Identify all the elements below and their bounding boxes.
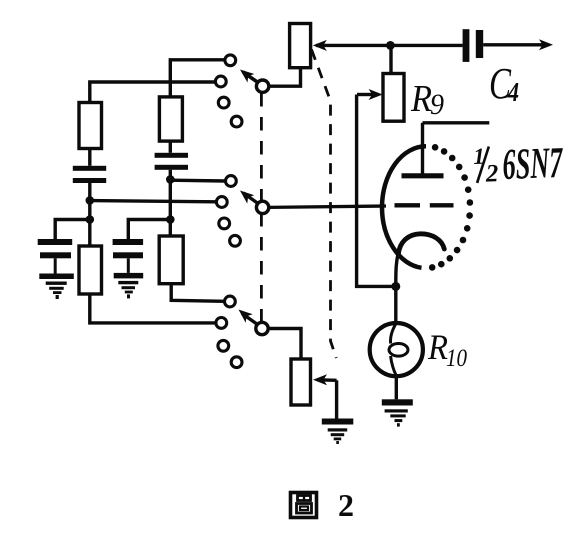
wire: R10 to ground: [395, 376, 398, 399]
wire: cathode node to R10: [394, 286, 397, 323]
svg-text:4: 4: [507, 77, 519, 107]
wire: C2 down to col2 junction: [169, 170, 172, 236]
resistor R3 (col1 lower): [79, 246, 102, 294]
caption: figure character: [291, 493, 317, 518]
ground (under C5): [114, 273, 144, 299]
wire: S1c pivot to VR2: [268, 329, 301, 360]
switch S1c contact 3: [218, 340, 229, 351]
wire: C3 to ground: [54, 258, 57, 273]
output arrow: [539, 39, 553, 50]
switch S1c contact 2: [216, 318, 227, 329]
wiper arrow of VR2: [317, 378, 337, 382]
wire: plate to B+: [423, 121, 490, 124]
switch S1c contact 4: [231, 357, 242, 368]
wire: grid to switch S1b wiper: [269, 206, 386, 207]
capacitor C4: [463, 29, 470, 62]
wire: C5 to ground: [127, 258, 130, 273]
svg-text:R: R: [410, 78, 432, 120]
wire: col1 to bypass cap C3: [55, 220, 90, 240]
switch S1c wiper arm: [242, 314, 258, 325]
switch S1a contact 3: [218, 97, 229, 108]
switch S1b contact 2: [216, 197, 227, 208]
ground (under VR2): [322, 419, 354, 445]
wire: R9 wiper down to cathode node: [357, 95, 393, 287]
switch S1c contact 1: [225, 296, 236, 307]
cathode of U1: [398, 234, 444, 255]
svg-text:R: R: [427, 327, 448, 367]
ground (under R10): [382, 399, 413, 426]
ballast resistor R10 (lamp symbol): [370, 323, 423, 376]
svg-text:6SN7: 6SN7: [502, 138, 565, 189]
capacitor C3 (grounded): [38, 239, 72, 258]
wire: R4 to S1c contact 1: [171, 284, 224, 302]
triode envelope (dotted right arc): [429, 144, 473, 271]
wire: R3 to S1c contact 2: [90, 294, 216, 323]
label 1/2 6SN7: [473, 138, 565, 190]
wire: R2 to C2: [169, 141, 172, 153]
switch S1a pivot: [256, 80, 268, 92]
node: col2 junction a: [166, 175, 175, 184]
dashed gang line of switch S1: [260, 93, 263, 321]
switch S1c pivot: [256, 322, 268, 334]
wiper arrow of VR1: [316, 44, 463, 47]
switch S1b contact 3: [219, 218, 230, 229]
resistor R4 (col2 lower): [159, 236, 183, 284]
resistor R2 (col2 upper): [159, 97, 182, 141]
switch S1a contact 4: [231, 116, 242, 127]
capacitor C1 (col1): [73, 166, 106, 183]
wire: col1 to S1b contact 2: [90, 201, 217, 202]
wire: col1 top to S1a contact 2: [90, 82, 216, 103]
potentiometer VR1 (top): [290, 24, 311, 68]
node: col1 junction b: [86, 215, 95, 224]
wire: junction to R9: [389, 45, 392, 73]
switch S1b contact 1: [226, 176, 237, 187]
node: col2 junction b: [166, 215, 175, 224]
dashed gang line VR1-VR2: [312, 50, 337, 359]
node: col1 junction a: [86, 196, 95, 205]
switch S1b wiper arm: [244, 193, 259, 204]
wire: S1a pivot to VR1: [269, 68, 301, 87]
switch S1a contact 2: [215, 76, 226, 87]
svg-text:2: 2: [338, 487, 354, 523]
svg-text:2: 2: [484, 160, 498, 187]
wire: R1 to C1: [88, 149, 91, 166]
potentiometer VR2 (bottom): [291, 359, 311, 405]
ground (under C3): [39, 274, 74, 300]
node: cathode junction: [391, 282, 400, 291]
wire: col2 top to S1a contact 1: [170, 60, 225, 97]
node: junction at R9 top: [386, 41, 395, 50]
plate (anode) of U1: [402, 173, 444, 178]
resistor R9: [383, 74, 404, 122]
wire: col2 to S1b contact 1: [170, 178, 225, 182]
switch S1a wiper arm: [243, 72, 258, 83]
wire: C1 down: [88, 183, 91, 246]
wire: col2 to bypass cap C5: [128, 220, 170, 240]
svg-text:10: 10: [446, 345, 467, 372]
grid of U1 (dashed): [395, 203, 421, 207]
wire: C4 to output: [483, 43, 545, 46]
switch S1a contact 1: [225, 55, 236, 66]
wire: VR2 wiper to ground: [335, 380, 338, 418]
capacitor C5 (grounded): [113, 239, 144, 258]
triode envelope (solid left arc): [382, 146, 426, 267]
switch S1b pivot: [256, 201, 268, 213]
switch S1b contact 4: [230, 235, 241, 246]
svg-text:9: 9: [430, 88, 444, 121]
resistor R1 (col1 upper): [79, 103, 102, 149]
capacitor C2 (col2): [155, 153, 188, 170]
wiper arrow of R9: [357, 93, 372, 96]
